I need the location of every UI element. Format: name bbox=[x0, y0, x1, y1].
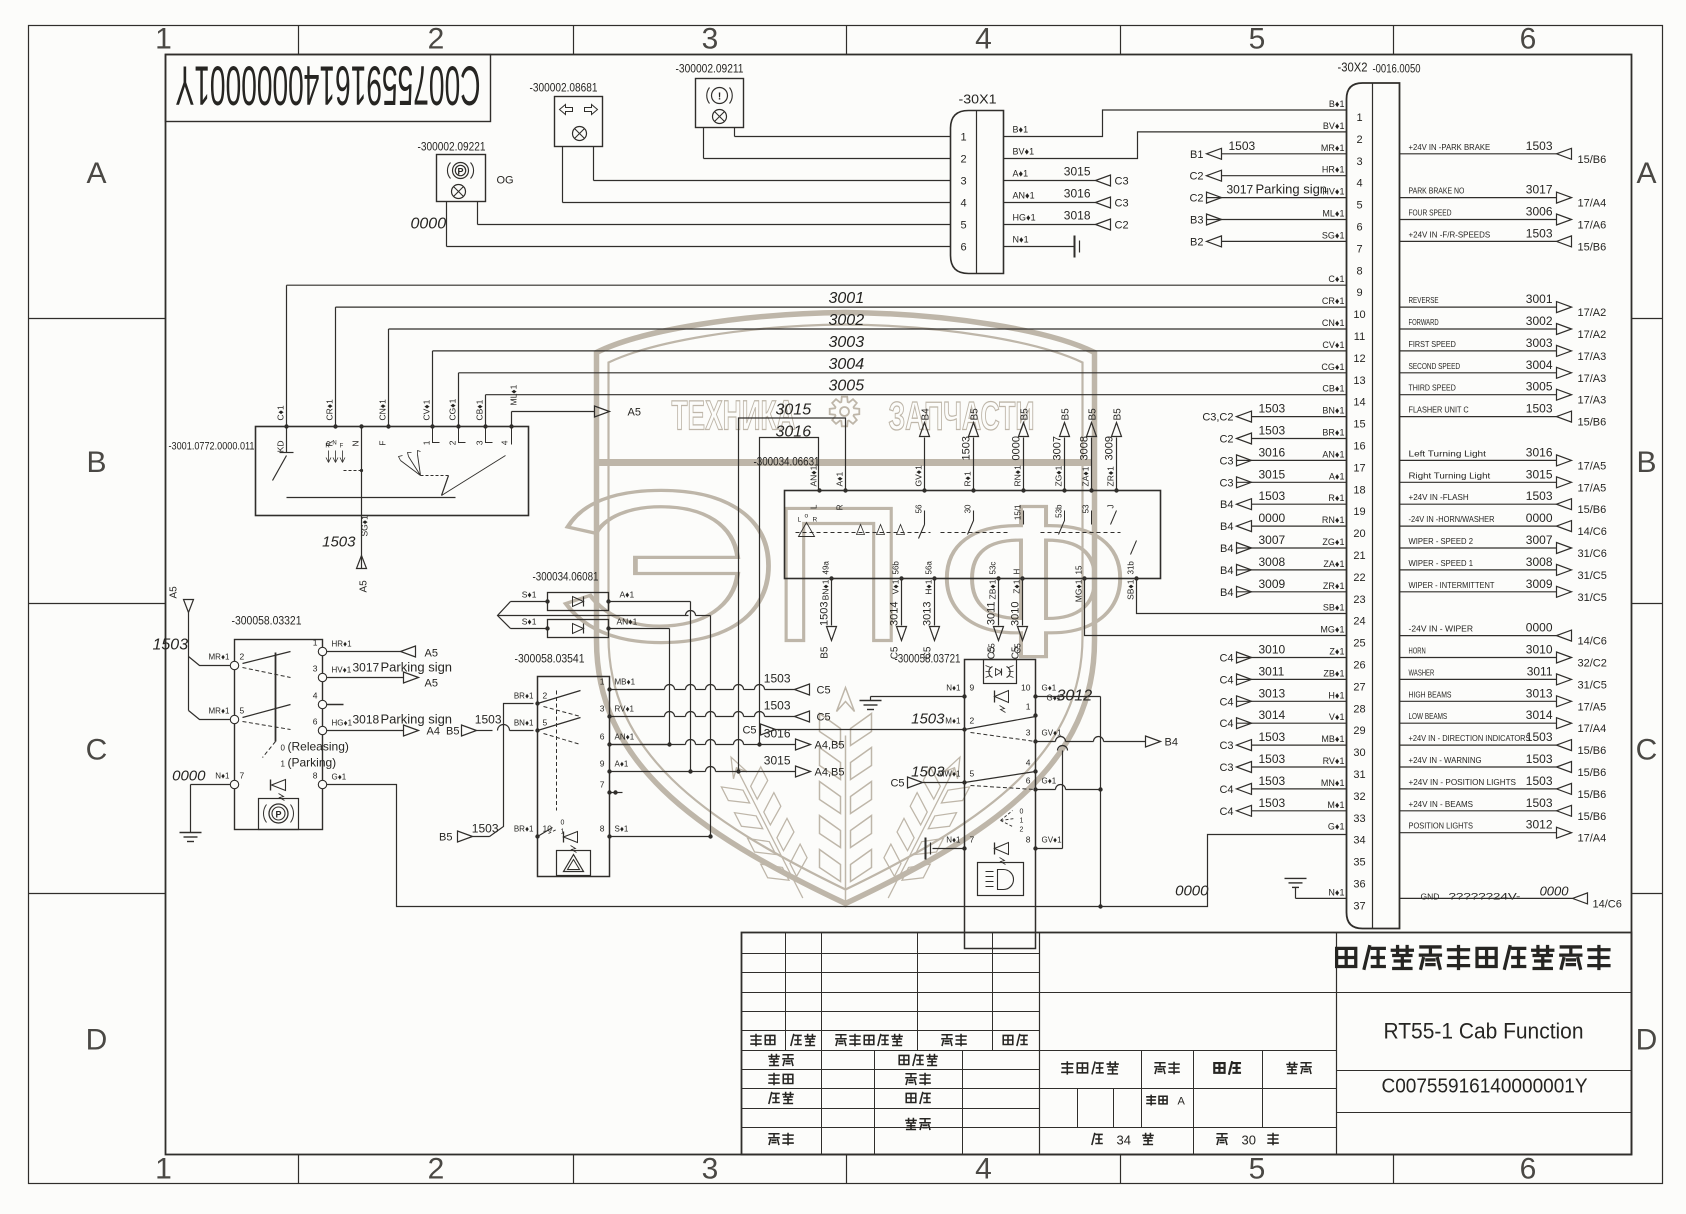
svg-text:6: 6 bbox=[1520, 1153, 1537, 1186]
svg-text:3: 3 bbox=[313, 664, 318, 674]
svg-text:0000: 0000 bbox=[1011, 436, 1023, 460]
svg-text:L: L bbox=[798, 517, 802, 524]
svg-text:3008: 3008 bbox=[1079, 436, 1091, 460]
svg-text:A4: A4 bbox=[427, 726, 440, 738]
svg-text:Z♦1: Z♦1 bbox=[1329, 647, 1344, 657]
svg-text:1503: 1503 bbox=[472, 822, 499, 836]
svg-text:6: 6 bbox=[960, 242, 966, 254]
svg-text:C4: C4 bbox=[1219, 806, 1233, 818]
svg-text:1: 1 bbox=[960, 132, 966, 144]
svg-text:B4: B4 bbox=[1165, 737, 1178, 749]
svg-text:32/C2: 32/C2 bbox=[1578, 658, 1607, 670]
svg-text:53c: 53c bbox=[989, 562, 998, 575]
svg-text:3: 3 bbox=[960, 176, 966, 188]
svg-text:F: F bbox=[340, 444, 344, 450]
svg-text:C3: C3 bbox=[1219, 455, 1233, 467]
svg-text:C5: C5 bbox=[890, 778, 904, 790]
svg-text:17/A5: 17/A5 bbox=[1578, 701, 1607, 713]
svg-text:1503: 1503 bbox=[1259, 424, 1286, 438]
svg-text:ML♦1: ML♦1 bbox=[509, 384, 519, 405]
svg-text:0000: 0000 bbox=[1526, 511, 1553, 525]
svg-text:3017: 3017 bbox=[353, 661, 380, 675]
svg-text:SB♦1: SB♦1 bbox=[1323, 603, 1345, 613]
svg-text:14/C6: 14/C6 bbox=[1578, 526, 1607, 538]
svg-text:SG♦1: SG♦1 bbox=[360, 515, 370, 537]
svg-text:30: 30 bbox=[1242, 1133, 1256, 1148]
svg-text:9: 9 bbox=[1356, 287, 1362, 299]
svg-text:3009: 3009 bbox=[1526, 577, 1553, 591]
svg-text:B5: B5 bbox=[1113, 408, 1124, 421]
svg-text:8: 8 bbox=[313, 771, 318, 781]
svg-text:31/C6: 31/C6 bbox=[1578, 548, 1607, 560]
svg-text:56a: 56a bbox=[925, 561, 934, 575]
svg-text:3009: 3009 bbox=[1104, 436, 1116, 460]
svg-text:-24V IN - WIPER: -24V IN - WIPER bbox=[1409, 624, 1474, 634]
svg-text:1503: 1503 bbox=[764, 699, 791, 713]
svg-text:3011: 3011 bbox=[1259, 664, 1285, 678]
svg-text:10: 10 bbox=[1353, 309, 1365, 321]
svg-text:3013: 3013 bbox=[922, 602, 934, 626]
svg-text:M♦1: M♦1 bbox=[945, 717, 961, 726]
svg-text:SB♦1: SB♦1 bbox=[1126, 579, 1136, 600]
svg-text:ZG♦1: ZG♦1 bbox=[1054, 465, 1064, 486]
svg-text:15/1: 15/1 bbox=[1014, 504, 1023, 520]
svg-text:WIPER - INTERMITTENT: WIPER - INTERMITTENT bbox=[1409, 580, 1495, 590]
svg-text:C2: C2 bbox=[1115, 220, 1129, 232]
svg-text:R: R bbox=[813, 517, 818, 524]
svg-text:5: 5 bbox=[543, 718, 548, 728]
svg-text:14: 14 bbox=[1353, 397, 1365, 409]
svg-text:16: 16 bbox=[1353, 441, 1365, 453]
svg-text:4: 4 bbox=[960, 198, 966, 210]
svg-text:ZR♦1: ZR♦1 bbox=[1106, 466, 1116, 487]
svg-text:1503: 1503 bbox=[819, 602, 831, 626]
svg-text:7: 7 bbox=[1356, 243, 1362, 255]
svg-text:2: 2 bbox=[240, 652, 245, 662]
svg-text:3008: 3008 bbox=[1259, 555, 1286, 569]
svg-text:FOUR SPEED: FOUR SPEED bbox=[1409, 208, 1452, 218]
svg-text:WIPER - SPEED 1: WIPER - SPEED 1 bbox=[1409, 558, 1474, 568]
svg-text:B4: B4 bbox=[921, 408, 932, 421]
svg-text:Parking sign: Parking sign bbox=[381, 660, 453, 675]
svg-text:Э: Э bbox=[549, 446, 779, 686]
svg-text:5: 5 bbox=[1249, 23, 1266, 56]
svg-text:WIPER - SPEED 2: WIPER - SPEED 2 bbox=[1409, 536, 1474, 546]
svg-text:C3,C2: C3,C2 bbox=[1202, 412, 1233, 424]
svg-text:0: 0 bbox=[561, 820, 565, 827]
svg-text:C00755916140000001Y: C00755916140000001Y bbox=[1382, 1076, 1588, 1098]
svg-text:H: H bbox=[1013, 569, 1022, 575]
svg-text:C4: C4 bbox=[1219, 653, 1233, 665]
svg-text:15/B6: 15/B6 bbox=[1578, 745, 1607, 757]
svg-text:N♦1: N♦1 bbox=[215, 772, 230, 781]
svg-text:1503: 1503 bbox=[1259, 752, 1286, 766]
svg-text:3: 3 bbox=[475, 440, 485, 445]
svg-text:33: 33 bbox=[1353, 813, 1365, 825]
svg-text:C5: C5 bbox=[817, 685, 831, 697]
svg-text:3002: 3002 bbox=[1526, 314, 1553, 328]
svg-text:A5: A5 bbox=[628, 407, 641, 419]
svg-text:A: A bbox=[1178, 1096, 1186, 1108]
svg-text:A: A bbox=[86, 157, 106, 190]
svg-text:6: 6 bbox=[1520, 23, 1537, 56]
svg-text:6: 6 bbox=[1356, 222, 1362, 234]
svg-text:BR♦1: BR♦1 bbox=[1322, 428, 1344, 438]
svg-text:CN♦1: CN♦1 bbox=[1322, 318, 1345, 328]
svg-text:B5: B5 bbox=[820, 646, 831, 659]
svg-text:17/A4: 17/A4 bbox=[1578, 833, 1607, 845]
svg-text:B5: B5 bbox=[1061, 408, 1072, 421]
svg-text:+24V IN - WARNING: +24V IN - WARNING bbox=[1409, 755, 1482, 765]
svg-text:ЗАПЧАСТИ: ЗАПЧАСТИ bbox=[889, 395, 1035, 439]
svg-text:3014: 3014 bbox=[1526, 708, 1553, 722]
svg-text:C3: C3 bbox=[1115, 198, 1129, 210]
svg-text:17/A3: 17/A3 bbox=[1578, 395, 1607, 407]
svg-text:1503: 1503 bbox=[1526, 139, 1553, 153]
svg-text:N: N bbox=[351, 441, 361, 447]
svg-text:56b: 56b bbox=[892, 561, 901, 575]
svg-text:B4: B4 bbox=[1220, 587, 1233, 599]
svg-text:1503: 1503 bbox=[911, 764, 945, 781]
svg-text:П: П bbox=[771, 468, 906, 682]
svg-text:HIGH BEAMS: HIGH BEAMS bbox=[1409, 689, 1452, 699]
svg-text:15/B6: 15/B6 bbox=[1578, 241, 1607, 253]
svg-text:C2: C2 bbox=[1189, 171, 1203, 183]
svg-text:1503: 1503 bbox=[1229, 139, 1256, 153]
svg-text:C4: C4 bbox=[1219, 696, 1233, 708]
svg-text:34: 34 bbox=[1117, 1133, 1131, 1148]
svg-text:RT55-1 Cab Function: RT55-1 Cab Function bbox=[1384, 1019, 1584, 1044]
svg-text:1503: 1503 bbox=[1526, 489, 1553, 503]
svg-text:0: 0 bbox=[281, 744, 286, 753]
svg-text:A5: A5 bbox=[425, 648, 438, 660]
svg-text:CB♦1: CB♦1 bbox=[1322, 384, 1344, 394]
svg-text:17: 17 bbox=[1353, 462, 1365, 474]
svg-text:B1: B1 bbox=[1190, 149, 1203, 161]
svg-text:4: 4 bbox=[1026, 758, 1031, 768]
svg-text:B4: B4 bbox=[1220, 543, 1233, 555]
svg-text:B5: B5 bbox=[446, 726, 459, 738]
svg-text:B5: B5 bbox=[970, 408, 981, 421]
svg-text:3012: 3012 bbox=[1526, 818, 1553, 832]
svg-text:15/B6: 15/B6 bbox=[1578, 154, 1607, 166]
svg-text:3001: 3001 bbox=[1526, 292, 1553, 306]
svg-text:A5: A5 bbox=[425, 678, 438, 690]
svg-text:9: 9 bbox=[600, 759, 605, 769]
svg-text:53: 53 bbox=[1082, 504, 1091, 513]
svg-text:A♦1: A♦1 bbox=[615, 760, 629, 769]
svg-text:FORWARD: FORWARD bbox=[1409, 317, 1439, 327]
svg-text:3: 3 bbox=[702, 1153, 719, 1186]
svg-text:1503: 1503 bbox=[1526, 752, 1553, 766]
svg-text:CB♦1: CB♦1 bbox=[475, 399, 485, 420]
svg-text:1503: 1503 bbox=[1259, 402, 1286, 416]
svg-text:12: 12 bbox=[1353, 353, 1365, 365]
svg-text:CR♦1: CR♦1 bbox=[325, 399, 335, 421]
svg-text:MR♦1: MR♦1 bbox=[209, 653, 231, 662]
svg-text:B: B bbox=[86, 446, 106, 479]
svg-text:1503: 1503 bbox=[322, 534, 356, 551]
svg-text:OG: OG bbox=[497, 175, 514, 187]
svg-text:SG♦1: SG♦1 bbox=[1322, 230, 1345, 240]
svg-text:3011: 3011 bbox=[1527, 664, 1553, 678]
svg-text:22: 22 bbox=[1353, 572, 1365, 584]
svg-text:+24V IN -FLASH: +24V IN -FLASH bbox=[1409, 492, 1469, 502]
svg-text:A♦1: A♦1 bbox=[835, 471, 845, 486]
svg-text:27: 27 bbox=[1353, 681, 1365, 693]
svg-text:3010: 3010 bbox=[1259, 643, 1286, 657]
svg-text:3015: 3015 bbox=[1064, 165, 1091, 179]
svg-text:C: C bbox=[1636, 734, 1658, 767]
svg-text:1: 1 bbox=[155, 1153, 172, 1186]
svg-text:31/C5: 31/C5 bbox=[1578, 592, 1607, 604]
svg-text:THIRD SPEED: THIRD SPEED bbox=[1409, 383, 1456, 393]
svg-text:3018: 3018 bbox=[1064, 209, 1091, 223]
svg-text:36: 36 bbox=[1353, 879, 1365, 891]
svg-text:3007: 3007 bbox=[1259, 533, 1286, 547]
svg-text:B5: B5 bbox=[1088, 408, 1099, 421]
svg-text:(Parking): (Parking) bbox=[288, 756, 337, 770]
svg-text:1503: 1503 bbox=[1259, 730, 1286, 744]
svg-text:28: 28 bbox=[1353, 703, 1365, 715]
svg-text:31b: 31b bbox=[1127, 561, 1136, 575]
svg-text:24: 24 bbox=[1353, 616, 1365, 628]
svg-text:C2: C2 bbox=[1219, 434, 1233, 446]
svg-text:HG♦1: HG♦1 bbox=[332, 719, 353, 728]
svg-text:CG♦1: CG♦1 bbox=[448, 398, 458, 420]
svg-text:AN♦1: AN♦1 bbox=[615, 733, 635, 742]
svg-text:3016: 3016 bbox=[1259, 445, 1286, 459]
svg-text:Right Turning Light: Right Turning Light bbox=[1409, 470, 1491, 480]
svg-text:ZB♦1: ZB♦1 bbox=[1323, 668, 1344, 678]
svg-text:MB♦1: MB♦1 bbox=[615, 678, 636, 687]
svg-text:0000: 0000 bbox=[172, 768, 206, 785]
svg-text:14/C6: 14/C6 bbox=[1593, 898, 1622, 910]
svg-text:19: 19 bbox=[1353, 506, 1365, 518]
svg-text:C00755916140000001Y: C00755916140000001Y bbox=[176, 55, 481, 118]
svg-text:-300034.06081: -300034.06081 bbox=[533, 570, 599, 584]
svg-text:POSITION LIGHTS: POSITION LIGHTS bbox=[1409, 821, 1474, 831]
svg-text:26: 26 bbox=[1353, 660, 1365, 672]
svg-text:11: 11 bbox=[1354, 331, 1365, 343]
svg-text:2: 2 bbox=[428, 23, 445, 56]
svg-text:1503: 1503 bbox=[1526, 796, 1553, 810]
svg-text:31/C5: 31/C5 bbox=[1578, 570, 1607, 582]
svg-text:+24V IN - BEAMS: +24V IN - BEAMS bbox=[1409, 799, 1474, 809]
svg-text:C: C bbox=[86, 734, 108, 767]
svg-text:ZA♦1: ZA♦1 bbox=[1323, 559, 1344, 569]
svg-text:A: A bbox=[1636, 157, 1656, 190]
svg-text:5: 5 bbox=[240, 706, 245, 716]
svg-text:4: 4 bbox=[500, 440, 510, 445]
svg-text:Ф: Ф bbox=[931, 461, 1135, 701]
svg-text:CR♦1: CR♦1 bbox=[1322, 296, 1345, 306]
svg-text:L: L bbox=[810, 504, 819, 509]
svg-text:30: 30 bbox=[964, 504, 973, 513]
svg-text:23: 23 bbox=[1353, 594, 1365, 606]
svg-text:56: 56 bbox=[915, 504, 924, 513]
svg-text:3001: 3001 bbox=[829, 290, 865, 307]
svg-text:Parking sign: Parking sign bbox=[381, 712, 453, 727]
svg-text:BN♦1: BN♦1 bbox=[821, 579, 831, 600]
svg-text:14/C6: 14/C6 bbox=[1578, 636, 1607, 648]
svg-text:3013: 3013 bbox=[1526, 686, 1553, 700]
svg-text:MR♦1: MR♦1 bbox=[1321, 143, 1345, 153]
svg-text:0000: 0000 bbox=[1259, 511, 1286, 525]
svg-text:KD: KD bbox=[276, 441, 286, 453]
svg-text:C4: C4 bbox=[1219, 674, 1233, 686]
svg-text:2: 2 bbox=[1020, 827, 1024, 834]
svg-text:A♦1: A♦1 bbox=[1329, 471, 1345, 481]
svg-text:15: 15 bbox=[1353, 419, 1365, 431]
svg-text:MN♦1: MN♦1 bbox=[1321, 778, 1345, 788]
svg-text:S♦1: S♦1 bbox=[615, 825, 629, 834]
svg-text:31/C5: 31/C5 bbox=[1578, 679, 1607, 691]
svg-text:1503: 1503 bbox=[1526, 774, 1553, 788]
svg-text:3009: 3009 bbox=[1259, 577, 1286, 591]
svg-text:C5: C5 bbox=[1014, 643, 1023, 654]
svg-text:N♦1: N♦1 bbox=[1328, 887, 1344, 897]
svg-text:1503: 1503 bbox=[1259, 774, 1286, 788]
svg-text:0000: 0000 bbox=[411, 216, 447, 233]
svg-text:RN♦1: RN♦1 bbox=[1013, 465, 1023, 487]
svg-text:N: N bbox=[332, 441, 336, 447]
svg-text:MG♦1: MG♦1 bbox=[1074, 579, 1084, 602]
svg-text:MR♦1: MR♦1 bbox=[209, 707, 231, 716]
svg-text:+24V IN - POSITION LIGHTS: +24V IN - POSITION LIGHTS bbox=[1409, 777, 1517, 787]
svg-text:0: 0 bbox=[1020, 809, 1024, 816]
svg-text:1503: 1503 bbox=[1526, 226, 1553, 240]
svg-text:Left Turning Light: Left Turning Light bbox=[1409, 448, 1487, 458]
svg-text:C4: C4 bbox=[1219, 718, 1233, 730]
svg-text:RV♦1: RV♦1 bbox=[615, 705, 635, 714]
svg-text:B♦1: B♦1 bbox=[1013, 125, 1029, 135]
svg-text:H♦1: H♦1 bbox=[924, 579, 934, 594]
svg-text:R: R bbox=[836, 504, 845, 510]
svg-text:4: 4 bbox=[1356, 178, 1362, 190]
svg-text:B4: B4 bbox=[1220, 521, 1233, 533]
svg-text:3015: 3015 bbox=[1259, 467, 1286, 481]
svg-text:35: 35 bbox=[1353, 857, 1365, 869]
svg-text:AN♦1: AN♦1 bbox=[809, 465, 819, 486]
svg-text:B5: B5 bbox=[1020, 408, 1031, 421]
svg-text:A4,B5: A4,B5 bbox=[815, 740, 845, 752]
svg-text:BN♦1: BN♦1 bbox=[1322, 406, 1344, 416]
svg-text:17/A5: 17/A5 bbox=[1578, 460, 1607, 472]
svg-text:15/B6: 15/B6 bbox=[1578, 811, 1607, 823]
svg-text:3013: 3013 bbox=[1259, 686, 1286, 700]
svg-text:G♦1: G♦1 bbox=[332, 773, 347, 782]
svg-text:-300002.09211: -300002.09211 bbox=[676, 62, 744, 76]
svg-text:0000: 0000 bbox=[1540, 883, 1570, 898]
svg-text:3007: 3007 bbox=[1052, 436, 1064, 460]
svg-text:1503: 1503 bbox=[961, 436, 973, 460]
svg-text:3003: 3003 bbox=[1526, 336, 1553, 350]
svg-text:15/B6: 15/B6 bbox=[1578, 504, 1607, 516]
svg-text:ZB♦1: ZB♦1 bbox=[988, 579, 998, 599]
svg-text:R♦1: R♦1 bbox=[963, 471, 973, 486]
svg-text:3014: 3014 bbox=[1259, 708, 1286, 722]
svg-text:31: 31 bbox=[1353, 769, 1365, 781]
svg-text:3017: 3017 bbox=[1227, 183, 1254, 197]
svg-text:M♦1: M♦1 bbox=[1327, 800, 1344, 810]
svg-text:B4: B4 bbox=[1220, 565, 1233, 577]
svg-text:5: 5 bbox=[970, 769, 975, 779]
svg-text:C5: C5 bbox=[817, 712, 831, 724]
svg-text:1: 1 bbox=[422, 440, 432, 445]
svg-text:A5: A5 bbox=[169, 586, 180, 599]
svg-text:7: 7 bbox=[970, 835, 975, 845]
svg-text:4: 4 bbox=[975, 23, 992, 56]
svg-text:A♦1: A♦1 bbox=[620, 590, 635, 600]
svg-text:10: 10 bbox=[1021, 683, 1031, 693]
svg-text:-3001.0772.0000.011: -3001.0772.0000.011 bbox=[169, 441, 255, 453]
svg-text:B2: B2 bbox=[1190, 236, 1203, 248]
svg-text:3002: 3002 bbox=[829, 312, 865, 329]
svg-text:V♦1: V♦1 bbox=[1329, 712, 1345, 722]
svg-text:3014: 3014 bbox=[889, 602, 901, 626]
svg-text:3016: 3016 bbox=[1526, 445, 1553, 459]
svg-text:1: 1 bbox=[155, 23, 172, 56]
svg-text:3007: 3007 bbox=[1526, 533, 1553, 547]
svg-text:6: 6 bbox=[1026, 776, 1031, 786]
svg-text:1: 1 bbox=[281, 760, 286, 769]
svg-text:1503: 1503 bbox=[1259, 489, 1286, 503]
svg-text:2: 2 bbox=[448, 440, 458, 445]
svg-text:-300002.09221: -300002.09221 bbox=[418, 140, 486, 154]
svg-text:1: 1 bbox=[313, 638, 318, 648]
svg-text:CG♦1: CG♦1 bbox=[1321, 362, 1344, 372]
svg-text:B♦1: B♦1 bbox=[1329, 99, 1345, 109]
svg-text:2: 2 bbox=[428, 1153, 445, 1186]
svg-text:A5: A5 bbox=[359, 580, 370, 593]
svg-text:ML♦1: ML♦1 bbox=[1322, 209, 1344, 219]
svg-text:3010: 3010 bbox=[1010, 602, 1022, 626]
svg-text:HR♦1: HR♦1 bbox=[1322, 165, 1345, 175]
svg-text:D: D bbox=[86, 1024, 108, 1057]
svg-text:N♦1: N♦1 bbox=[1013, 235, 1029, 245]
svg-text:HV♦1: HV♦1 bbox=[332, 666, 352, 675]
svg-text:WASHER: WASHER bbox=[1409, 667, 1435, 677]
svg-text:Parking sign: Parking sign bbox=[1256, 182, 1328, 197]
svg-text:C3: C3 bbox=[1219, 740, 1233, 752]
svg-text:-30X1: -30X1 bbox=[959, 92, 997, 107]
svg-text:1503: 1503 bbox=[911, 711, 945, 728]
svg-text:17/A5: 17/A5 bbox=[1578, 482, 1607, 494]
svg-text:CV♦1: CV♦1 bbox=[1322, 340, 1344, 350]
svg-text:17/A4: 17/A4 bbox=[1578, 723, 1607, 735]
svg-text:C♦1: C♦1 bbox=[276, 405, 286, 420]
svg-text:BV♦1: BV♦1 bbox=[1323, 121, 1345, 131]
svg-text:FIRST SPEED: FIRST SPEED bbox=[1409, 339, 1456, 349]
svg-text:C2: C2 bbox=[1189, 193, 1203, 205]
svg-text:B4: B4 bbox=[1220, 499, 1233, 511]
svg-text:3011: 3011 bbox=[986, 602, 998, 626]
svg-text:AN♦1: AN♦1 bbox=[1322, 449, 1344, 459]
svg-text:17/A3: 17/A3 bbox=[1578, 351, 1607, 363]
svg-text:3005: 3005 bbox=[1526, 380, 1553, 394]
svg-text:MG♦1: MG♦1 bbox=[1320, 625, 1344, 635]
svg-text:+24V IN -PARK BRAKE: +24V IN -PARK BRAKE bbox=[1409, 142, 1491, 152]
svg-text:BR♦1: BR♦1 bbox=[514, 825, 534, 834]
svg-text:G♦1: G♦1 bbox=[1328, 822, 1345, 832]
svg-text:C3: C3 bbox=[1219, 477, 1233, 489]
svg-text:CN♦1: CN♦1 bbox=[378, 399, 388, 421]
svg-text:3016: 3016 bbox=[1064, 187, 1091, 201]
svg-text:B3: B3 bbox=[1190, 215, 1203, 227]
svg-text:2: 2 bbox=[960, 154, 966, 166]
svg-text:AN♦1: AN♦1 bbox=[617, 617, 638, 627]
